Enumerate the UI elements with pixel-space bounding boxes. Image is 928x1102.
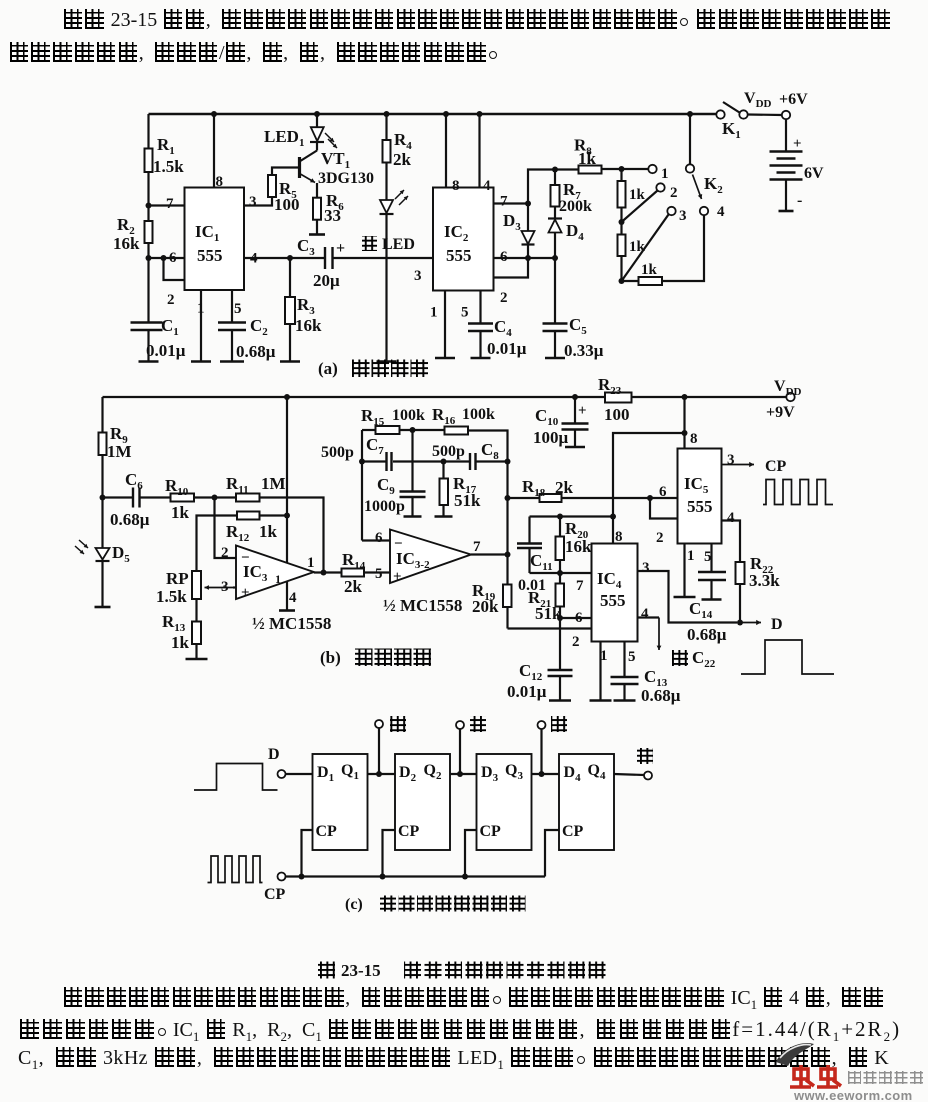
svg-text:1k: 1k [629,187,646,203]
svg-text:C6: C6 [125,470,143,492]
watermark: eeworm logo [758,1032,928,1102]
svg-text:C14: C14 [689,599,713,621]
wire: pin 3 of IC3 to RP wiper (drawn above as arrow) [233,586,236,588]
wire: R13 to ground [195,644,197,659]
wire: Q3 to D4 [532,773,560,775]
svg-text:1: 1 [430,305,438,321]
svg-text:www.eeworm.com: www.eeworm.com [793,1088,913,1102]
wire: C2 to ground [231,330,233,362]
wire: RP to R13 [195,599,197,622]
svg-text:C8: C8 [481,440,499,462]
ground (R17) [435,515,453,518]
svg-text:3: 3 [414,268,422,284]
svg-text:8: 8 [690,431,698,447]
diode LED infrared [380,200,393,213]
wire: R6 to common bar [316,220,318,235]
capacitor C7 [362,460,387,462]
capacitor C10 electrolytic [574,397,576,424]
wire: VT1 collector to LED1 [316,143,318,151]
svg-text:1M: 1M [261,474,286,493]
wire: IC5 pin 3 CP output [722,464,755,466]
svg-text:1: 1 [307,555,315,571]
svg-text:R14: R14 [342,550,366,572]
ground (C1) [139,360,159,363]
svg-text:7: 7 [166,196,174,212]
svg-text:3: 3 [679,208,687,224]
node: R21 bottom / pin6 [557,615,563,621]
wire: R4 to IR LED [385,163,387,201]
wire: R16 to right loop [468,431,508,629]
svg-text:100k: 100k [462,406,495,423]
resistor 1k (ladder horizontal) [639,277,663,285]
svg-text:2k: 2k [393,150,412,169]
resistor 1k (ladder lower) [618,235,626,257]
wire: rail to IC5 pin 8 [683,397,685,449]
node: R20/R21/pin7 [557,570,563,576]
wire: ladder bottom segment [620,256,622,281]
wire: +V top rail (b) [103,396,787,398]
waveform: D pulse [741,640,834,674]
svg-text:R18: R18 [522,477,546,499]
svg-text:CP: CP [765,458,787,475]
node: R12 right [284,513,290,519]
svg-text:RP: RP [166,569,189,588]
op IC4 555 box [592,544,638,642]
wire: pin 4 of IC1 to C3 [244,257,325,259]
ground (C12) [549,699,571,702]
svg-text:2: 2 [656,530,664,546]
svg-text:VT1: VT1 [321,149,350,171]
wire: pin 1 of IC1 to ground [200,290,202,362]
wire: C8 to right loop [477,460,508,462]
svg-text:D: D [771,616,783,633]
svg-text:R23: R23 [598,375,622,397]
svg-text:2: 2 [167,292,175,308]
wire: R2 to node pin6 [147,243,149,323]
svg-text:500p: 500p [432,443,465,460]
label: red LED (hong) [362,236,377,251]
svg-text:7: 7 [500,194,508,210]
svg-text:4: 4 [483,178,491,194]
wire: pin 3 of IC1 to R5 [244,197,272,206]
wire: pin 7 of IC1 [149,204,185,206]
ground (IR LED) [377,360,397,363]
ground bar (IC3 pin4) [279,609,295,612]
switch contact 3 [667,207,675,215]
wire: R21 to pin 6 of IC4 [559,607,561,619]
svg-text:4: 4 [289,590,297,606]
battery 6V [785,120,787,152]
svg-text:½ MC1558: ½ MC1558 [383,596,462,615]
svg-text:100k: 100k [392,407,425,424]
waveform: CP pulse train [208,856,263,883]
node: C8 right on vertical [505,459,511,465]
wire: R12 to RP top [197,516,238,572]
svg-text:8: 8 [216,174,224,190]
wire: Q2 to D3 [450,773,477,775]
capacitor C5 [554,258,556,324]
wire: IR LED to ground [385,214,387,362]
svg-text:R16: R16 [432,405,456,427]
svg-text:0.01μ: 0.01μ [507,682,547,701]
wire: C3 to IC2 pin 3 [333,257,434,259]
svg-text:D5: D5 [112,543,130,565]
node: R20 top [557,514,563,520]
paragraph: body line 3 [18,1047,889,1073]
flip-flop DFF3 box [477,754,532,850]
resistor R21 [559,573,561,584]
watermark bug swoosh [776,1043,814,1066]
node: R9/C6/D5 [100,495,106,501]
svg-text:3: 3 [727,452,735,468]
label: connect C22 [672,650,688,666]
svg-text:2k: 2k [344,577,363,596]
svg-text:1k: 1k [578,149,597,168]
svg-text:1.5k: 1.5k [153,157,184,176]
resistor R6 [313,198,321,220]
svg-text:4: 4 [717,204,725,220]
capacitor C9 [411,430,413,492]
wire: C11 bottom to pin 7 node [530,572,592,574]
wire: C7 to C8 [393,460,470,462]
node: CP tap 1 [299,874,305,880]
svg-text:5: 5 [704,549,712,565]
wire: Q1 to D2 [368,773,396,775]
svg-text:33: 33 [324,206,341,225]
svg-text:C9: C9 [377,475,395,497]
paragraph: intro line 1 [62,9,891,32]
svg-text:6V: 6V [804,165,824,182]
wire: IC4 pin 1 to ground [599,642,601,701]
resistor R8 [579,166,602,174]
terminal: CP input circle [278,873,286,881]
node: R2/pin6 junction [146,255,152,261]
wire: R5 to VT1 base [272,168,300,176]
wire: pin 7 output of IC3-2 [471,553,508,555]
svg-text:555: 555 [197,246,223,265]
svg-text:1k: 1k [629,239,646,255]
node: ladder bottom [619,278,625,284]
node: C7 left [359,459,365,465]
wire: bias top horizontal (R20 node) [530,515,614,517]
node: K2 branch on rail [687,111,693,117]
wire: D output terminal [740,622,761,624]
svg-text:0.33μ: 0.33μ [564,341,604,360]
svg-text:D4: D4 [566,221,584,243]
svg-text:+: + [393,569,402,585]
svg-text:+: + [578,403,587,419]
node: pin8 tee [682,430,688,436]
terminal: off (guan) [644,772,652,780]
resistor R4 [384,111,390,117]
resistor R11 [236,494,260,502]
wire: pin 2 jog of IC5 [650,498,678,519]
wire: CP riser to DFF1 [302,830,313,877]
svg-text:555: 555 [446,246,472,265]
svg-text:C3: C3 [297,236,315,258]
svg-text:3.3k: 3.3k [749,571,780,590]
svg-text:1M: 1M [107,442,132,461]
wire: ladder top segment [620,169,622,181]
wire: K1 to battery terminal [748,113,782,116]
svg-text:5: 5 [461,305,469,321]
waveform: D input pulse [194,764,278,791]
wire: pin 2 jog of IC2 [494,258,529,278]
switch K2 pole [689,114,691,165]
svg-text:D3: D3 [503,211,521,233]
capacitor C8 [469,453,471,470]
ground (C10) [565,446,585,449]
diode D3 [527,204,529,232]
node: supply drop for IC4/IC5 [682,394,688,400]
svg-text:1k: 1k [171,633,190,652]
node: CP tap 2 [380,874,386,880]
svg-text:2: 2 [670,185,678,201]
node: R10/R11/pin2 [212,495,218,501]
svg-text:C12: C12 [519,661,543,683]
potentiometer RP [192,571,201,599]
node: D3 bottom on pin6 wire [525,255,531,261]
ground (IC1 pin1) [191,360,211,363]
capacitor C3 electrolytic [324,247,326,269]
svg-text:R1: R1 [157,135,175,157]
ground (C9) [404,515,422,518]
svg-text:7: 7 [473,539,481,555]
figure caption: fig 23-15 [318,962,335,979]
svg-text:C2: C2 [250,316,268,338]
wire: C1 to ground [147,330,149,362]
node: mid tap [457,771,463,777]
terminal: fast (kuai) [540,729,542,774]
node: R15/R16/C9 [410,427,416,433]
svg-text:3: 3 [642,560,650,576]
node: C7/C8/R17 [441,459,447,465]
svg-text:2: 2 [500,290,508,306]
wire: CP bus [286,875,546,877]
svg-text:R12: R12 [226,522,250,544]
ground (C4) [471,357,491,360]
op IC1 555 timer box [185,188,245,291]
node: pin2/pin6 tie [161,255,167,261]
resistor R20 [559,517,561,537]
svg-text:0.68μ: 0.68μ [687,625,727,644]
svg-text:0.68μ: 0.68μ [110,510,150,529]
ground (C5) [545,357,565,360]
terminal VDD +9V [786,393,794,401]
resistor R23 on rail [605,393,632,403]
wire: left vertical rail (a) [147,114,149,149]
capacitor C12 [548,669,573,671]
wire: pin 6 of IC3-2 [362,539,390,541]
wire: pin7 node up to R8 line [528,170,579,204]
node: D4/C5 junction [552,255,558,261]
op IC2 555 timer box [433,188,494,291]
resistor R16 [445,427,469,435]
node: ladder tap 2 [619,219,625,225]
node: fast tap [539,771,545,777]
svg-text:1: 1 [661,166,669,182]
resistor R1 [145,149,153,173]
diode D4 [554,207,556,220]
capacitor C2 [218,321,246,323]
wire: pin 5 of IC1 to C2 [231,290,233,323]
wire: C9 to ground [411,497,413,517]
svg-text:R10: R10 [165,476,189,498]
resistor R17 [442,462,444,479]
wire: C6 to R10 [140,496,171,498]
switch K1 [716,110,724,118]
terminal: slow (man) [378,728,380,774]
wire: CP riser to DFF3 [465,830,477,877]
ground (R3) [280,360,300,363]
svg-text:VDD: VDD [774,378,802,398]
wire: IC3 output [314,571,342,573]
wire: R17 to ground [442,505,444,517]
capacitor C11 branch [528,517,530,544]
wire: tap2 diagonal to contact 2 [622,191,658,223]
node: R1/R2/pin7 junction [146,203,152,209]
svg-text:3: 3 [221,579,229,595]
resistor R18 [508,497,540,499]
svg-text:1000p: 1000p [364,498,405,515]
svg-text:2k: 2k [555,478,574,497]
svg-text:C10: C10 [535,406,559,428]
wire: R9 to C6 node [101,455,103,548]
node: pin8 on rail [211,111,217,117]
svg-text:8: 8 [452,178,460,194]
svg-text:R13: R13 [162,612,186,634]
resistor R7 [554,170,556,186]
resistor R14 [342,569,365,577]
svg-text:C1: C1 [161,316,179,338]
ground (C13) [614,699,636,702]
svg-text:3DG130: 3DG130 [318,170,374,187]
svg-text:1: 1 [275,572,281,586]
svg-text:C11: C11 [530,551,553,573]
svg-text:½ MC1558: ½ MC1558 [252,614,331,633]
wire: R1 to node pin7 [147,172,149,221]
wire: pin 4 of IC2 to rail [478,114,480,188]
svg-text:R3: R3 [297,295,315,317]
flip-flop DFF4 box [559,754,614,850]
paragraph: body line 2 [18,1017,901,1045]
node: slow tap [376,771,382,777]
resistor R5 [268,175,276,197]
svg-text:16k: 16k [295,316,322,335]
wire: IC4 pin 4 to C22 arrow [638,616,660,618]
node: on IC4 supply vertical [610,514,616,520]
svg-text:C4: C4 [494,317,512,339]
resistor R13 [192,622,201,645]
op-amp IC3 (1/2 MC1558) [236,546,314,600]
wire: C12 to ground [559,676,561,701]
node: LED1 on rail [314,111,320,117]
waveform: CP pulses [763,480,833,505]
svg-text:CP: CP [316,823,338,840]
svg-text:6: 6 [659,484,667,500]
wire: R10 to input node [194,496,236,498]
wire: CP riser to DFF4 [545,830,559,877]
svg-text:6: 6 [575,610,583,626]
resistor R2 [145,221,153,243]
svg-text:51k: 51k [454,491,481,510]
svg-text:4: 4 [727,510,735,526]
flip-flop DFF2 box [395,754,450,850]
svg-text:+: + [241,585,250,601]
svg-text:16k: 16k [565,537,592,556]
ground (C2) [220,360,244,363]
svg-text:+: + [336,240,345,257]
svg-text:K2: K2 [704,174,723,196]
svg-text:R4: R4 [394,130,412,152]
node: CP tap 3 [462,874,468,880]
wire: D input to DFF1 [286,773,313,775]
node: resistor ladder top [619,166,625,172]
capacitor C1 [131,321,163,323]
terminal: mid (zhong) [459,729,461,774]
svg-text:(a): (a) [318,359,338,378]
wire: pin 2 jog of IC1 [164,258,185,280]
svg-text:-: - [797,192,802,209]
svg-text:R15: R15 [361,406,385,428]
wire: pin 7 of IC2 [494,202,529,204]
ground (R13) [186,658,208,661]
switch contact 2 [656,183,664,191]
wire: IC4 pin 5 to C13 [623,642,625,678]
op-amp IC3-2 (1/2 MC1558) [390,530,471,584]
svg-text:0.68μ: 0.68μ [236,342,276,361]
wire: bottom diagonal to contact 3 [622,215,669,282]
ground (IC4 pin1) [590,699,612,702]
svg-text:1: 1 [687,548,695,564]
svg-text:6: 6 [169,250,177,266]
svg-text:D: D [268,746,280,763]
svg-text:CP: CP [562,823,584,840]
node: pin4/R3 junction [287,255,293,261]
wire: IC5 pin 4 to R22 [722,521,741,563]
resistor R9 [99,433,107,456]
svg-text:K1: K1 [722,119,741,141]
svg-text:CP: CP [398,823,420,840]
wire: supply vertical x287 [286,397,288,611]
switch K2 contact 4 [700,207,708,215]
ground bar (R6) [309,233,325,236]
svg-text:555: 555 [600,591,626,610]
svg-text:VDD: VDD [744,90,772,110]
svg-text:1.5k: 1.5k [156,587,187,606]
wire: R20 to pin7 node [559,560,561,573]
svg-text:(b): (b) [320,648,341,667]
svg-text:2: 2 [221,545,229,561]
wire: loop top to R15 [362,429,376,431]
svg-text:CP: CP [480,823,502,840]
wire: R11 feedback to output [260,498,324,573]
svg-text:4: 4 [641,606,649,622]
wire: C14 to ground [710,580,712,600]
svg-text:555: 555 [687,497,713,516]
resistor R22 [736,562,745,584]
svg-text:1k: 1k [171,503,190,522]
paragraph: body line 1 [62,987,884,1013]
node: output on right vertical [505,552,511,558]
svg-text:20μ: 20μ [313,271,340,290]
svg-text:0.68μ: 0.68μ [641,686,681,705]
svg-text:100: 100 [274,195,300,214]
svg-text:CP: CP [264,886,286,903]
wire: contact 4 down to ladder [662,216,704,282]
wire: CP riser to DFF2 [383,830,396,877]
wire: pin 6 of IC1 [149,257,185,259]
